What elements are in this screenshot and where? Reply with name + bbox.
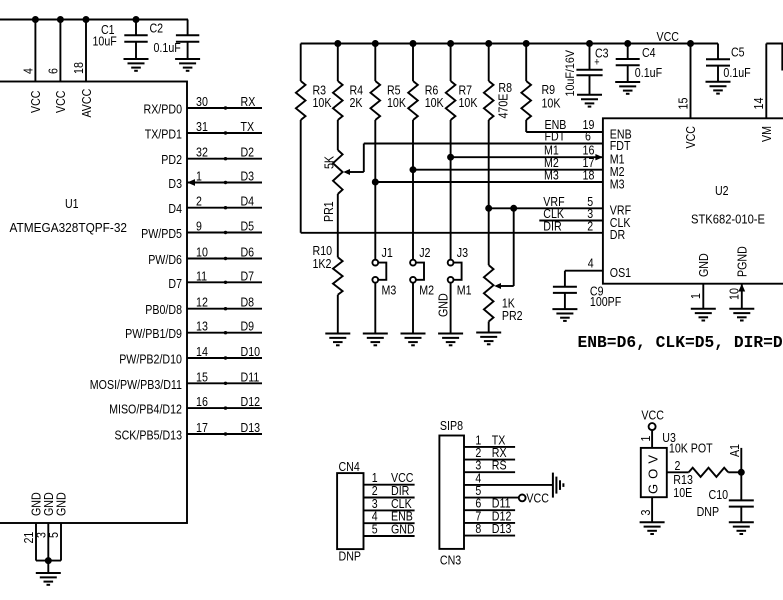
junction <box>32 17 38 23</box>
svg-text:4: 4 <box>21 68 36 74</box>
svg-text:D3: D3 <box>241 169 255 184</box>
connector CN4 DNP <box>337 459 363 564</box>
svg-text:SCK/PB5/D13: SCK/PB5/D13 <box>115 428 183 443</box>
svg-text:100PF: 100PF <box>590 294 621 309</box>
svg-text:10uF: 10uF <box>93 34 117 49</box>
svg-text:3: 3 <box>638 510 653 516</box>
svg-text:32: 32 <box>196 145 208 160</box>
resistor R5 10K <box>371 44 407 260</box>
pin 4 OS1 of U2 <box>565 256 603 271</box>
capacitor C2 0.1uF <box>150 20 200 59</box>
svg-text:D5: D5 <box>241 219 255 234</box>
junction <box>587 41 593 47</box>
svg-text:U1: U1 <box>65 196 79 211</box>
pin 5 GND of CN4 <box>364 522 415 537</box>
junction <box>486 41 492 47</box>
junction <box>372 179 378 185</box>
ground <box>729 309 754 321</box>
svg-text:ENB=D6, CLK=D5, DIR=D4: ENB=D6, CLK=D5, DIR=D4 <box>578 333 783 352</box>
svg-text:DIR: DIR <box>543 218 561 233</box>
svg-text:D3: D3 <box>168 176 182 191</box>
ground <box>552 309 577 321</box>
svg-text:0.1uF: 0.1uF <box>154 40 181 55</box>
ground <box>729 522 754 534</box>
ground <box>124 59 149 71</box>
resistor R7 10K <box>446 44 478 260</box>
svg-text:16: 16 <box>196 394 208 409</box>
resistor R13 10E <box>673 468 741 500</box>
svg-text:VCC: VCC <box>683 126 698 149</box>
IC U1 ATMEGA328TQPF-32 <box>0 82 187 524</box>
pin 5 GND of U1 <box>46 492 68 560</box>
capacitor C9 100PF <box>553 271 621 309</box>
svg-text:J1: J1 <box>382 245 393 260</box>
svg-text:PR2: PR2 <box>502 308 523 323</box>
svg-text:M3: M3 <box>610 176 625 191</box>
svg-text:U2: U2 <box>715 183 729 198</box>
svg-text:10uF/16V: 10uF/16V <box>563 50 577 97</box>
junction <box>335 41 341 47</box>
svg-text:10K: 10K <box>425 95 444 110</box>
svg-text:6: 6 <box>585 129 591 144</box>
svg-text:10E: 10E <box>673 485 692 500</box>
junction <box>410 167 416 173</box>
pin 3 GND of U1 <box>34 492 57 560</box>
connector CN3 SIP8 <box>439 418 464 568</box>
svg-text:D2: D2 <box>241 145 255 160</box>
resistor R4 2K <box>333 44 363 151</box>
pin 21 GND of U1 <box>21 492 44 560</box>
IC U2 STK682-010-E <box>603 118 783 283</box>
svg-text:GND: GND <box>54 492 69 516</box>
svg-text:5: 5 <box>46 532 61 538</box>
svg-text:VCC: VCC <box>53 91 68 114</box>
pin 1 D3 net D3 <box>168 169 262 192</box>
svg-text:ATMEGA328TQPF-32: ATMEGA328TQPF-32 <box>10 220 128 235</box>
svg-text:VCC: VCC <box>28 91 43 114</box>
svg-text:2: 2 <box>196 194 202 209</box>
pin 12 PB0/D8 net D8 <box>145 295 262 318</box>
svg-text:C10: C10 <box>709 487 729 502</box>
jumper J3 M1 <box>436 245 472 334</box>
svg-text:RS: RS <box>492 458 507 473</box>
svg-text:A1: A1 <box>727 444 742 457</box>
pin 6 VCC of U1 <box>46 20 69 114</box>
svg-text:D4: D4 <box>168 201 182 216</box>
svg-text:10K: 10K <box>459 95 478 110</box>
pin 10 PGND of U2 <box>727 284 746 309</box>
ground <box>175 59 200 71</box>
svg-text:1: 1 <box>196 169 202 184</box>
svg-text:PB0/D8: PB0/D8 <box>145 302 182 317</box>
svg-text:14: 14 <box>751 98 766 110</box>
supply VCC for U3 <box>641 408 664 431</box>
svg-text:D9: D9 <box>241 319 255 334</box>
svg-text:1: 1 <box>688 293 703 299</box>
resistor R10 1K2 <box>313 194 343 334</box>
pin 13 PW/PB1/D9 net D9 <box>125 319 262 342</box>
svg-text:M3: M3 <box>544 168 559 183</box>
ground <box>706 82 731 94</box>
svg-text:M1: M1 <box>457 283 472 298</box>
svg-text:FDT: FDT <box>545 129 566 144</box>
capacitor C10 DNP <box>697 472 754 522</box>
svg-text:VM: VM <box>759 126 774 142</box>
wire net DIR <box>301 218 603 233</box>
ground <box>36 573 61 585</box>
svg-text:10K POT: 10K POT <box>669 441 713 456</box>
ground <box>691 309 716 321</box>
jumper J2 M2 <box>410 245 434 334</box>
pin 3 RS of CN3 <box>464 458 515 473</box>
svg-text:C2: C2 <box>150 21 164 36</box>
ground <box>640 522 665 534</box>
pin 3 CLK of CN4 <box>364 496 415 511</box>
wire joining GND pins <box>36 561 61 573</box>
svg-text:GND: GND <box>696 253 711 277</box>
capacitor C1 10uF <box>93 20 148 59</box>
pin 15 VCC of U2 <box>675 44 690 119</box>
pin 14 VM of U2 <box>751 44 783 119</box>
svg-text:6: 6 <box>46 68 61 74</box>
ground (rotated) on CN3 pin 4 <box>553 473 564 498</box>
junction <box>448 154 454 160</box>
svg-text:GND: GND <box>436 293 451 317</box>
ground <box>577 95 602 107</box>
junction <box>45 558 51 564</box>
svg-text:D4: D4 <box>241 194 255 209</box>
junction <box>448 41 454 47</box>
svg-text:D13: D13 <box>492 521 512 536</box>
pin 8 D13 of CN3 <box>464 521 515 536</box>
svg-text:D12: D12 <box>241 394 261 409</box>
svg-text:470E: 470E <box>496 93 511 118</box>
pin 6 D11 of CN3 <box>464 496 515 511</box>
svg-text:1: 1 <box>638 436 653 442</box>
svg-text:DR: DR <box>610 227 625 242</box>
svg-text:DNP: DNP <box>339 549 362 564</box>
pin 15 MOSI/PW/PB3/D11 net D11 <box>90 369 262 392</box>
svg-text:2K: 2K <box>350 95 363 110</box>
svg-text:D7: D7 <box>168 276 182 291</box>
svg-text:+: + <box>594 57 599 69</box>
note ENB=D6, CLK=D5, DIR=D <box>578 333 783 352</box>
svg-text:30: 30 <box>196 94 208 109</box>
pin 16 MISO/PB4/D12 net D12 <box>109 394 262 417</box>
resistor R3 10K <box>296 44 332 233</box>
svg-text:STK682-010-E: STK682-010-E <box>691 212 765 227</box>
svg-text:MISO/PB4/D12: MISO/PB4/D12 <box>109 402 182 417</box>
pin 2 DIR of CN4 <box>364 483 415 498</box>
svg-text:5K: 5K <box>322 156 337 169</box>
svg-text:M2: M2 <box>419 283 434 298</box>
svg-text:PW/PB1/D9: PW/PB1/D9 <box>125 326 182 341</box>
svg-text:PW/PB2/D10: PW/PB2/D10 <box>119 352 182 367</box>
pin 4 NC of CN3 <box>464 470 553 485</box>
junction <box>511 205 517 211</box>
pin 1 TX of CN3 <box>464 432 515 447</box>
svg-text:PW/PD5: PW/PD5 <box>141 226 182 241</box>
svg-text:14: 14 <box>196 344 208 359</box>
svg-text:1K2: 1K2 <box>313 256 332 271</box>
jumper J1 M3 <box>372 245 396 334</box>
svg-text:TX/PD1: TX/PD1 <box>145 127 182 142</box>
svg-text:J2: J2 <box>419 245 430 260</box>
svg-text:13: 13 <box>196 319 208 334</box>
svg-text:VCC: VCC <box>526 491 549 506</box>
junction <box>688 41 694 47</box>
ground <box>325 334 350 346</box>
svg-text:M3: M3 <box>382 283 397 298</box>
svg-text:12: 12 <box>196 295 208 310</box>
pin 9 PW/PD5 net D5 <box>141 219 262 242</box>
wire net FDT <box>364 129 603 144</box>
svg-text:MOSI/PW/PB3/D11: MOSI/PW/PB3/D11 <box>90 377 182 392</box>
wire net M1 <box>451 143 603 161</box>
junction <box>133 17 139 23</box>
svg-text:15: 15 <box>675 98 690 110</box>
svg-text:10K: 10K <box>313 95 332 110</box>
svg-text:4: 4 <box>588 256 594 271</box>
junction <box>486 205 492 211</box>
wire net M3 <box>375 168 603 183</box>
capacitor C5 0.1uF <box>706 44 751 82</box>
svg-text:AVCC: AVCC <box>79 89 94 118</box>
svg-text:2: 2 <box>675 458 681 473</box>
svg-text:17: 17 <box>196 420 208 435</box>
wire net M2 <box>413 155 603 170</box>
resistor R8 470E <box>484 44 512 266</box>
junction <box>523 41 529 47</box>
wire net VRF <box>489 194 603 209</box>
svg-text:D6: D6 <box>241 245 255 260</box>
svg-text:RX/PD0: RX/PD0 <box>144 102 183 117</box>
ground <box>363 334 388 346</box>
pin 2 D4 net D4 <box>168 194 262 217</box>
wire VCC bus top-left <box>0 19 188 21</box>
pin 2 wiper of U3 <box>667 458 689 473</box>
svg-text:PR1: PR1 <box>321 201 336 222</box>
potentiometer U3 10K POT <box>638 430 713 522</box>
svg-text:RX: RX <box>241 94 256 109</box>
svg-text:18: 18 <box>583 168 595 183</box>
potentiometer PR2 1K <box>484 208 523 332</box>
svg-text:OS1: OS1 <box>610 265 631 280</box>
svg-text:0.1uF: 0.1uF <box>723 65 750 80</box>
svg-text:D11: D11 <box>241 369 260 384</box>
ground <box>615 82 640 94</box>
svg-text:10: 10 <box>727 288 742 300</box>
svg-text:2: 2 <box>587 218 593 233</box>
pin 32 PD2 net D2 <box>161 145 262 168</box>
svg-text:PD2: PD2 <box>161 152 182 167</box>
pin 4 VCC of U1 <box>21 20 44 114</box>
svg-text:C4: C4 <box>642 45 656 60</box>
svg-text:10K: 10K <box>387 95 406 110</box>
svg-text:D7: D7 <box>241 268 255 283</box>
pin 4 ENB of CN4 <box>364 509 415 524</box>
svg-text:CN4: CN4 <box>339 459 360 474</box>
junction <box>625 41 631 47</box>
svg-text:C5: C5 <box>731 45 745 60</box>
svg-text:G O V: G O V <box>645 455 660 494</box>
svg-text:DNP: DNP <box>697 504 720 519</box>
pin 30 RX/PD0 net RX <box>144 94 263 117</box>
svg-text:TX: TX <box>241 119 255 134</box>
wire net ENB <box>526 117 603 132</box>
capacitor C3 10uF/16V <box>563 44 609 97</box>
capacitor C6 (cut off at edge) <box>781 44 783 71</box>
svg-text:PGND: PGND <box>735 246 750 277</box>
pin 10 PW/D6 net D6 <box>148 245 262 268</box>
svg-text:11: 11 <box>196 268 207 283</box>
svg-text:VCC: VCC <box>641 408 664 423</box>
pin 7 D12 of CN3 <box>464 508 515 523</box>
wire net CLK <box>539 206 603 221</box>
svg-text:R8: R8 <box>498 80 512 95</box>
pin 17 SCK/PB5/D13 net D13 <box>115 420 263 443</box>
label VCC <box>657 29 680 44</box>
svg-text:D8: D8 <box>241 295 255 310</box>
wire VCC bus <box>301 43 718 45</box>
svg-text:10K: 10K <box>542 96 561 111</box>
pin 5 NC of CN3 <box>464 483 519 498</box>
junction <box>57 17 63 23</box>
node A1 <box>727 444 742 472</box>
svg-text:SIP8: SIP8 <box>440 418 463 433</box>
svg-text:GND: GND <box>391 522 415 537</box>
svg-text:18: 18 <box>71 62 86 74</box>
pin 31 TX/PD1 net TX <box>145 119 262 142</box>
junction <box>83 17 89 23</box>
pin 11 D7 net D7 <box>168 268 262 291</box>
junction <box>372 41 378 47</box>
svg-text:CN3: CN3 <box>440 552 461 567</box>
svg-text:VCC: VCC <box>657 29 680 44</box>
svg-text:0.1uF: 0.1uF <box>635 65 662 80</box>
pin 18 AVCC of U1 <box>71 20 94 118</box>
capacitor C4 0.1uF <box>616 44 662 82</box>
svg-text:10: 10 <box>196 245 208 260</box>
svg-text:8: 8 <box>475 521 481 536</box>
pin 1 VCC of CN4 <box>364 470 415 485</box>
resistor R9 10K <box>521 44 560 133</box>
svg-text:D10: D10 <box>241 344 261 359</box>
svg-text:J3: J3 <box>457 245 468 260</box>
svg-text:PW/D6: PW/D6 <box>148 252 182 267</box>
ground <box>476 333 501 345</box>
junction <box>410 41 416 47</box>
potentiometer PR1 5K <box>321 144 364 223</box>
svg-text:31: 31 <box>196 119 208 134</box>
svg-text:9: 9 <box>196 219 202 234</box>
svg-text:D13: D13 <box>241 420 261 435</box>
ground <box>401 334 426 346</box>
pin 2 RX of CN3 <box>464 445 515 460</box>
svg-text:15: 15 <box>196 369 208 384</box>
pin 1 GND of U2 <box>688 284 703 309</box>
resistor R6 10K <box>408 44 444 260</box>
ground <box>438 334 463 346</box>
supply VCC on CN3 pin 5 <box>519 491 549 506</box>
svg-text:5: 5 <box>372 522 378 537</box>
junction <box>738 469 744 475</box>
pin 14 PW/PB2/D10 net D10 <box>119 344 262 367</box>
